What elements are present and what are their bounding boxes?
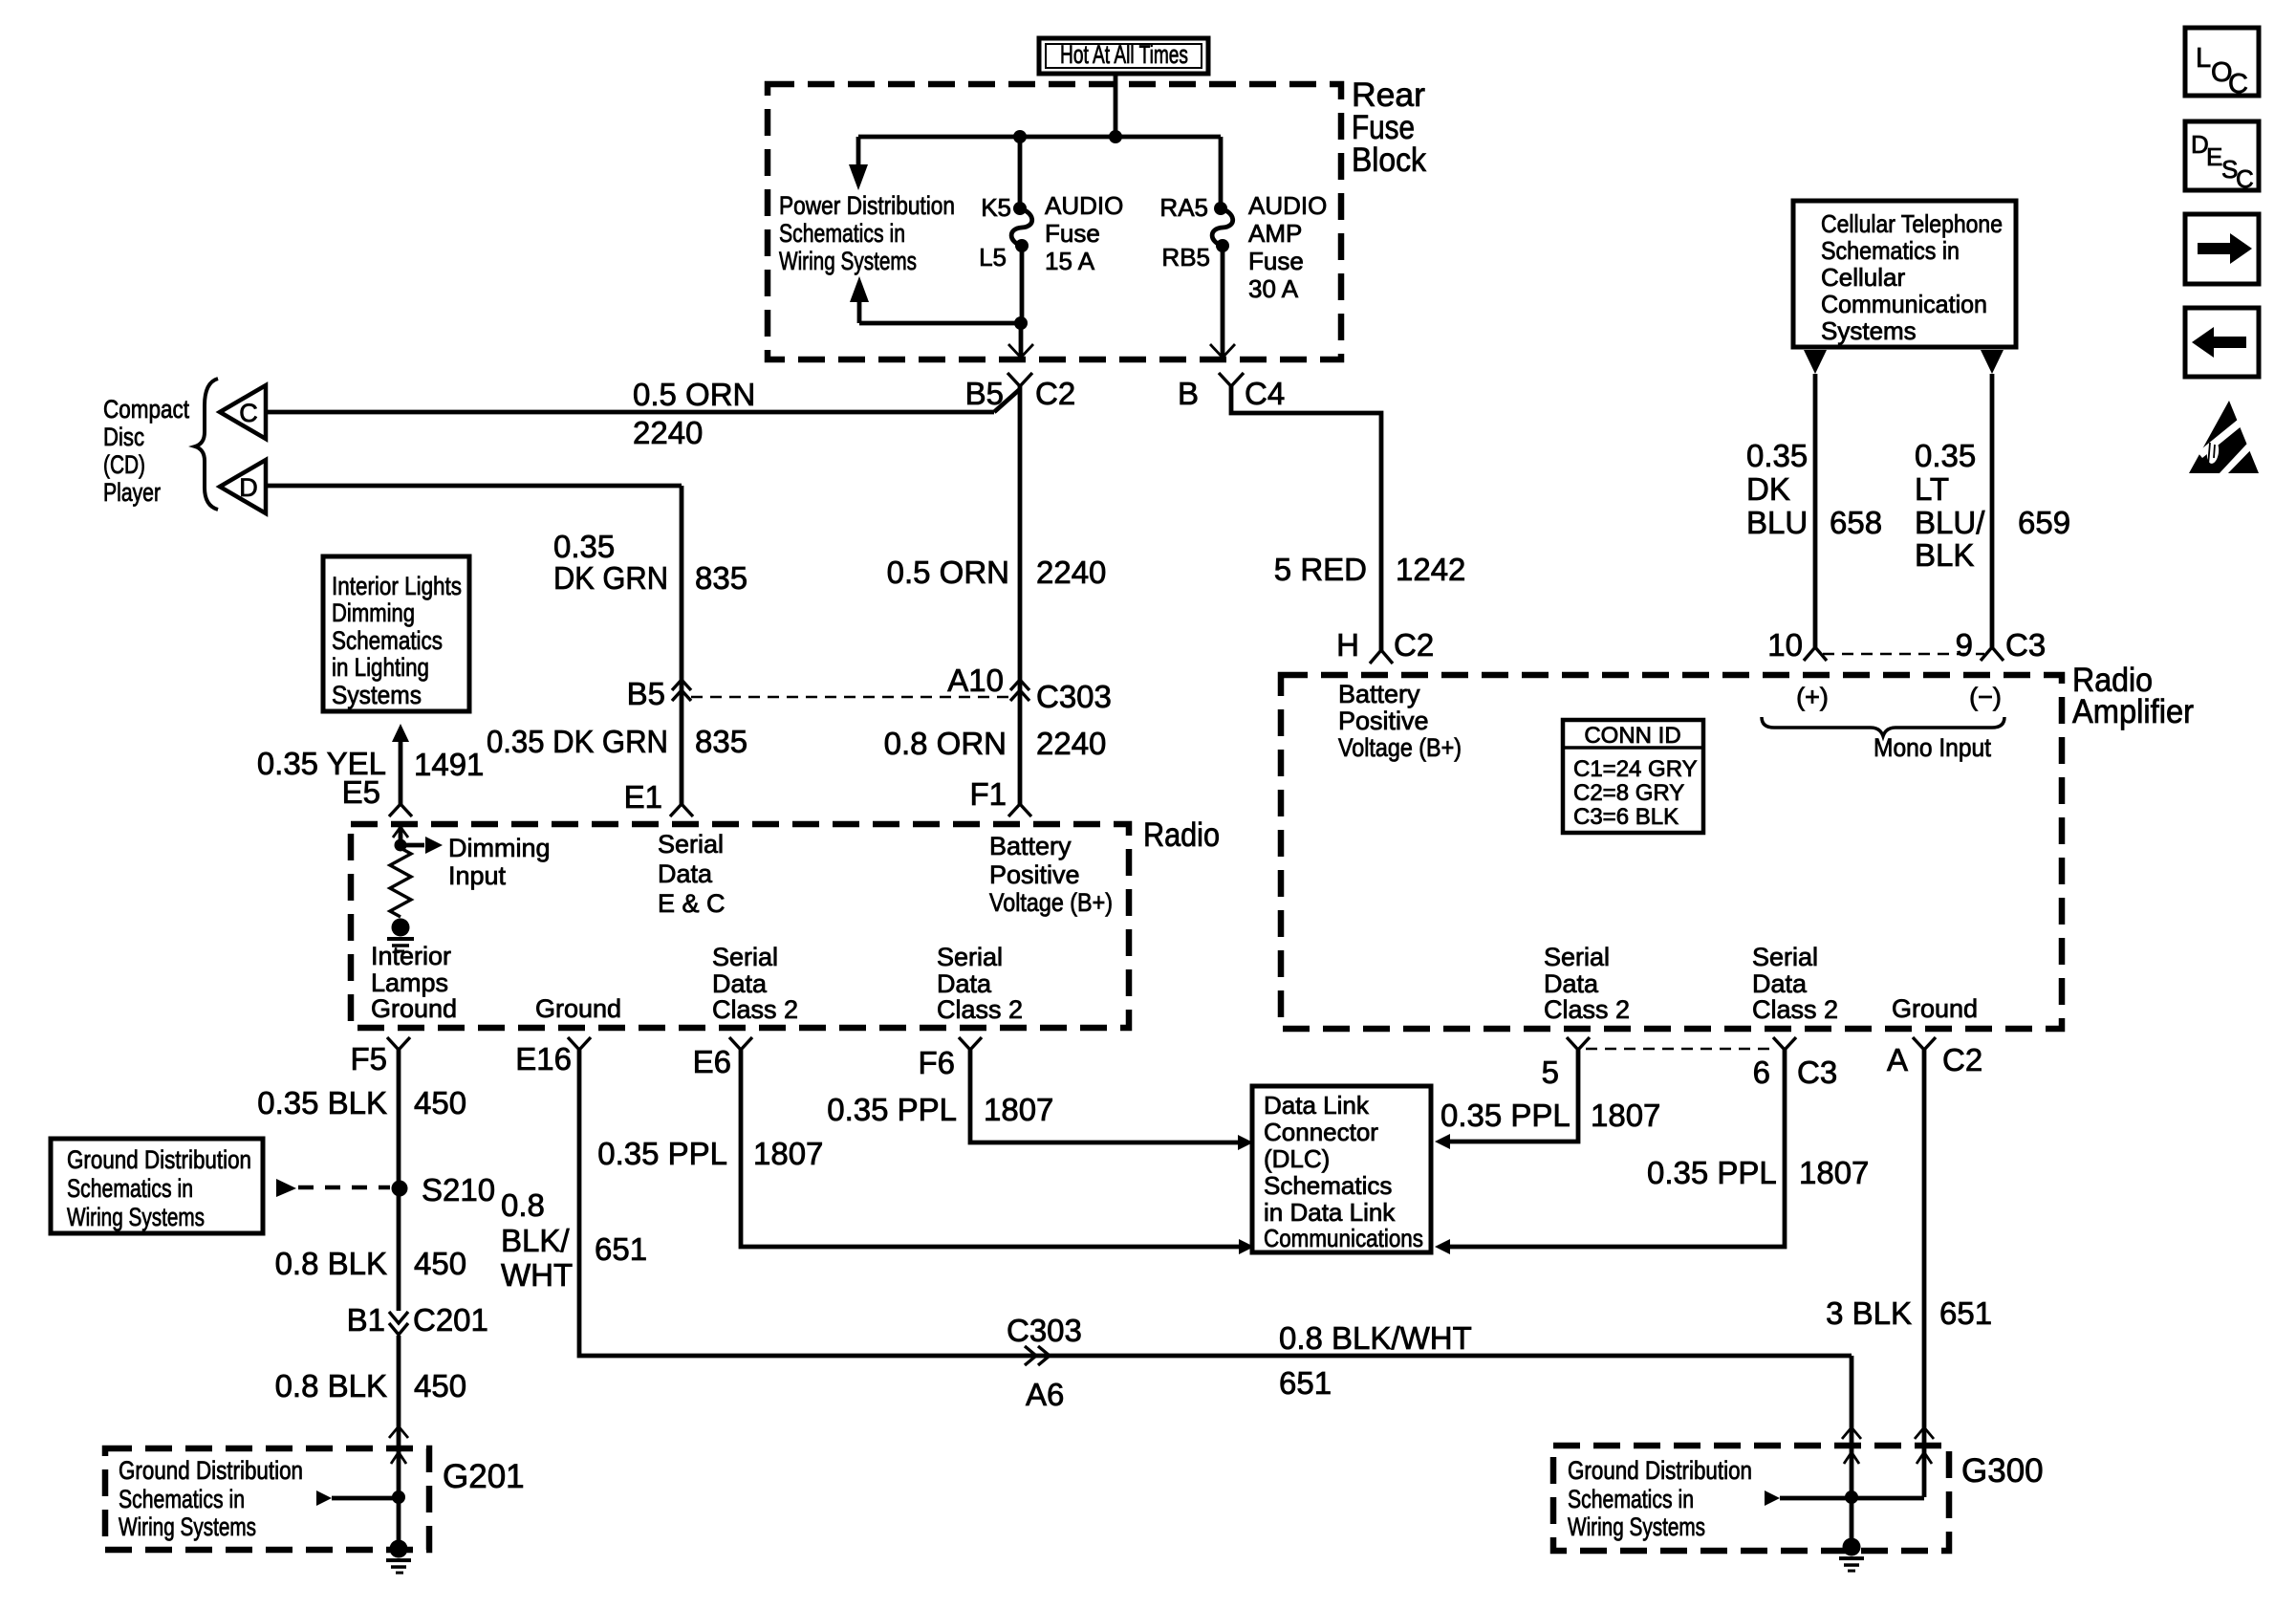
svg-text:5: 5 [1542,1055,1559,1090]
svg-text:Data: Data [1544,969,1599,998]
svg-text:C303: C303 [1007,1313,1082,1348]
svg-text:450: 450 [414,1368,466,1403]
svg-text:0.35 DK GRN: 0.35 DK GRN [487,724,668,759]
svg-text:in Data Link: in Data Link [1264,1198,1396,1227]
svg-text:Interior: Interior [371,942,451,970]
svg-text:Data: Data [1752,969,1808,998]
svg-text:0.35 PPL: 0.35 PPL [597,1136,727,1171]
svg-text:1807: 1807 [1591,1098,1660,1133]
svg-text:Class 2: Class 2 [1544,995,1630,1024]
svg-text:C3: C3 [1797,1055,1837,1090]
svg-text:E5: E5 [342,774,380,810]
svg-text:WHT: WHT [501,1257,573,1293]
svg-text:C303: C303 [1036,679,1112,714]
svg-text:Serial: Serial [712,943,778,971]
svg-text:C3: C3 [2005,627,2046,663]
svg-text:Cellular Telephone: Cellular Telephone [1821,209,2003,238]
svg-text:Wiring Systems: Wiring Systems [1568,1512,1705,1541]
svg-text:1807: 1807 [753,1136,823,1171]
svg-text:B: B [1178,376,1199,411]
svg-text:450: 450 [414,1085,466,1120]
svg-text:C2: C2 [1942,1042,1982,1077]
svg-text:0.5 ORN: 0.5 ORN [633,377,755,412]
svg-text:Voltage (B+): Voltage (B+) [1338,733,1462,762]
svg-text:RA5: RA5 [1159,193,1208,222]
svg-text:0.8 BLK/WHT: 0.8 BLK/WHT [1279,1320,1472,1356]
svg-text:AUDIO: AUDIO [1045,191,1123,220]
svg-text:Cellular: Cellular [1821,263,1905,292]
svg-text:Input: Input [448,861,507,890]
svg-text:Battery: Battery [989,832,1072,860]
svg-text:C3=6 BLK: C3=6 BLK [1573,804,1679,830]
svg-text:10: 10 [1767,627,1803,663]
svg-text:B5: B5 [627,676,665,711]
svg-text:0.8 ORN: 0.8 ORN [884,726,1007,761]
svg-text:K5: K5 [981,193,1011,222]
svg-text:Schematics: Schematics [332,626,443,655]
svg-text:Serial: Serial [1544,943,1610,971]
svg-text:0.35 PPL: 0.35 PPL [1440,1098,1570,1133]
svg-text:1807: 1807 [984,1092,1053,1127]
svg-text:Compact: Compact [103,395,189,424]
svg-text:Power Distribution: Power Distribution [779,191,955,220]
svg-text:651: 651 [1939,1295,1992,1331]
svg-text:Positive: Positive [1338,707,1429,735]
svg-text:0.35 PPL: 0.35 PPL [1647,1155,1777,1190]
svg-text:30 A: 30 A [1248,274,1299,303]
svg-text:Interior Lights: Interior Lights [332,572,462,600]
svg-text:C2: C2 [1394,627,1434,663]
svg-text:Fuse: Fuse [1045,219,1100,248]
svg-text:L5: L5 [979,243,1007,272]
svg-text:0.35: 0.35 [1915,438,1976,473]
svg-text:1491: 1491 [414,747,484,782]
svg-text:DK GRN: DK GRN [553,560,668,596]
svg-text:1807: 1807 [1799,1155,1869,1190]
svg-text:Mono Input: Mono Input [1874,733,1991,762]
svg-text:C: C [2236,164,2254,193]
svg-text:0.8: 0.8 [501,1187,545,1223]
svg-text:Connector: Connector [1264,1118,1378,1146]
svg-text:(DLC): (DLC) [1264,1144,1330,1173]
svg-text:Class 2: Class 2 [712,995,798,1024]
svg-text:Wiring Systems: Wiring Systems [67,1203,205,1231]
svg-text:L: L [2196,43,2211,74]
svg-text:(−): (−) [1969,683,2002,711]
svg-text:C2=8 GRY: C2=8 GRY [1573,780,1684,806]
svg-text:RB5: RB5 [1161,243,1210,272]
svg-text:E6: E6 [693,1044,731,1079]
svg-text:A6: A6 [1026,1377,1064,1412]
svg-text:2240: 2240 [1036,726,1106,761]
svg-text:Player: Player [103,478,161,507]
svg-text:Battery: Battery [1338,680,1420,708]
svg-text:Wiring Systems: Wiring Systems [779,247,917,275]
svg-text:Disc: Disc [103,423,144,451]
svg-text:AUDIO: AUDIO [1248,191,1327,220]
svg-text:0.35: 0.35 [553,529,615,564]
svg-text:E & C: E & C [658,889,726,918]
svg-text:D: D [239,473,258,502]
svg-text:Voltage (B+): Voltage (B+) [989,888,1113,917]
svg-text:DK: DK [1746,471,1790,507]
svg-text:651: 651 [595,1231,647,1267]
svg-text:658: 658 [1830,505,1882,540]
svg-text:0.8 BLK: 0.8 BLK [275,1246,387,1281]
svg-text:651: 651 [1279,1365,1332,1401]
svg-text:H: H [1336,627,1359,663]
svg-text:Dimming: Dimming [332,598,415,627]
svg-text:835: 835 [695,724,747,759]
svg-text:BLK: BLK [1915,537,1974,573]
svg-text:E1: E1 [624,779,662,815]
svg-text:C4: C4 [1245,376,1285,411]
svg-text:C: C [2228,69,2248,99]
svg-text:2240: 2240 [633,415,703,450]
svg-text:(CD): (CD) [103,450,145,479]
svg-text:Radio: Radio [1143,816,1220,854]
svg-text:Class 2: Class 2 [1752,995,1838,1024]
svg-text:Ground: Ground [1892,994,1978,1023]
svg-text:C1=24 GRY: C1=24 GRY [1573,756,1698,782]
svg-text:3 BLK: 3 BLK [1826,1295,1912,1331]
svg-text:Serial: Serial [1752,943,1818,971]
svg-text:C2: C2 [1035,376,1075,411]
svg-text:LT: LT [1915,471,1949,507]
svg-text:(+): (+) [1796,683,1829,711]
svg-text:Wiring Systems: Wiring Systems [119,1512,256,1541]
svg-text:F6: F6 [918,1045,955,1080]
svg-text:Amplifier: Amplifier [2072,693,2194,730]
svg-text:0.5 ORN: 0.5 ORN [887,555,1009,590]
svg-text:B1: B1 [347,1302,385,1338]
svg-text:S210: S210 [422,1172,495,1207]
svg-text:0.35 BLK: 0.35 BLK [257,1085,387,1120]
svg-text:Systems: Systems [332,681,422,709]
svg-text:C: C [239,399,258,427]
svg-text:Data: Data [658,859,713,888]
svg-text:5 RED: 5 RED [1274,552,1367,587]
svg-text:659: 659 [2018,505,2070,540]
svg-text:Lamps: Lamps [371,968,448,997]
svg-text:Block: Block [1352,141,1426,179]
svg-text:6: 6 [1753,1055,1770,1090]
svg-text:Systems: Systems [1821,316,1917,345]
svg-text:1242: 1242 [1396,552,1465,587]
svg-text:Positive: Positive [989,860,1080,889]
svg-text:Schematics in: Schematics in [779,219,905,248]
svg-text:Dimming: Dimming [448,834,551,862]
svg-text:Communication: Communication [1821,290,1987,318]
svg-text:F1: F1 [969,776,1007,812]
svg-text:C201: C201 [413,1302,488,1338]
svg-text:CONN ID: CONN ID [1584,723,1680,749]
svg-text:B5: B5 [965,376,1004,411]
svg-text:835: 835 [695,560,747,596]
svg-text:E16: E16 [515,1041,572,1077]
svg-text:Data: Data [712,969,768,998]
svg-text:Ground Distribution: Ground Distribution [1568,1456,1752,1485]
svg-text:Serial: Serial [937,943,1003,971]
svg-text:Class 2: Class 2 [937,995,1023,1024]
svg-text:15 A: 15 A [1045,247,1095,275]
svg-text:0.8 BLK: 0.8 BLK [275,1368,387,1403]
svg-text:in Lighting: in Lighting [332,653,429,682]
svg-text:Hot At All Times: Hot At All Times [1060,40,1188,69]
svg-text:Schematics in: Schematics in [1568,1485,1694,1513]
svg-text:Schematics in: Schematics in [67,1174,193,1203]
svg-text:Fuse: Fuse [1248,247,1304,275]
svg-text:Data: Data [937,969,992,998]
svg-text:F5: F5 [350,1041,387,1077]
svg-text:Schematics in: Schematics in [1821,236,1960,265]
svg-text:Data Link: Data Link [1264,1091,1370,1120]
svg-text:Schematics: Schematics [1264,1171,1392,1200]
svg-text:2240: 2240 [1036,555,1106,590]
svg-text:AMP: AMP [1248,219,1302,248]
svg-text:A10: A10 [947,663,1004,698]
svg-text:G201: G201 [443,1458,525,1495]
svg-text:A: A [1887,1042,1908,1077]
svg-text:Ground: Ground [371,994,457,1023]
svg-text:Communications: Communications [1264,1224,1423,1252]
svg-text:Ground Distribution: Ground Distribution [119,1456,303,1485]
svg-text:9: 9 [1956,627,1973,663]
svg-text:E: E [2206,142,2222,171]
svg-text:0.35: 0.35 [1746,438,1808,473]
svg-text:450: 450 [414,1246,466,1281]
svg-text:Schematics in: Schematics in [119,1485,245,1513]
svg-text:BLU: BLU [1746,505,1808,540]
svg-text:Serial: Serial [658,830,724,859]
svg-text:Ground Distribution: Ground Distribution [67,1145,251,1174]
svg-text:Ground: Ground [535,994,621,1023]
svg-text:BLU/: BLU/ [1915,505,1985,540]
svg-text:BLK/: BLK/ [501,1223,570,1258]
svg-text:G300: G300 [1961,1452,2044,1490]
svg-text:0.35 PPL: 0.35 PPL [827,1092,957,1127]
